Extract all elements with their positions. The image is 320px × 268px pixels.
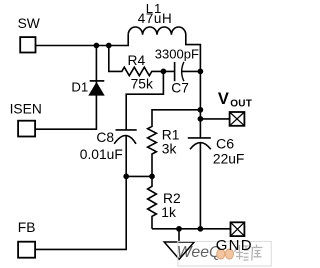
svg-text:SW: SW	[18, 16, 40, 31]
svg-text:R1: R1	[162, 127, 180, 142]
svg-text:D1: D1	[71, 80, 88, 95]
svg-text:C7: C7	[171, 80, 189, 95]
svg-text:R2: R2	[163, 191, 181, 206]
svg-text:GND: GND	[216, 237, 253, 254]
svg-text:V: V	[218, 90, 229, 108]
svg-text:22uF: 22uF	[213, 151, 244, 166]
svg-text:WeeQ: WeeQ	[177, 244, 221, 261]
svg-text:OUT: OUT	[230, 99, 252, 110]
svg-text:47uH: 47uH	[138, 11, 172, 26]
svg-text:R4: R4	[128, 53, 146, 68]
svg-text:3300pF: 3300pF	[155, 46, 199, 61]
svg-text:1k: 1k	[161, 205, 176, 220]
svg-text:75k: 75k	[131, 77, 153, 92]
svg-text:FB: FB	[18, 220, 36, 235]
svg-text:3k: 3k	[162, 141, 177, 156]
svg-text:C6: C6	[216, 136, 234, 152]
svg-text:0.01uF: 0.01uF	[80, 147, 123, 162]
svg-text:ISEN: ISEN	[10, 102, 42, 117]
svg-text:C8: C8	[96, 130, 114, 145]
